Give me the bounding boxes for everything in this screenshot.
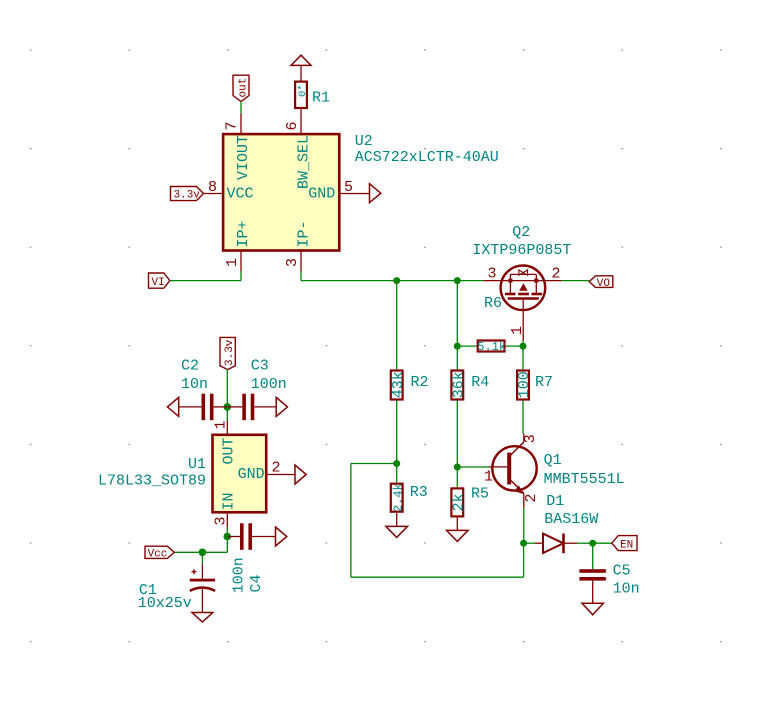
svg-text:IN: IN	[220, 492, 237, 510]
wire 3.3v to C2 C3 node	[226, 369, 228, 407]
wire R7 to Q1 collector	[522, 400, 524, 433]
wire R4 column	[456, 281, 458, 370]
wire to Vcc label	[174, 551, 202, 553]
capacitor C3	[227, 358, 287, 421]
svg-text:U1: U1	[188, 456, 206, 473]
power arrow above R1	[291, 55, 311, 80]
svg-text:D1: D1	[546, 493, 564, 510]
svg-text:0*: 0*	[297, 84, 309, 97]
svg-text:C5: C5	[613, 563, 631, 580]
global label out	[233, 75, 250, 101]
svg-text:C3: C3	[251, 358, 269, 375]
svg-text:10n: 10n	[613, 581, 640, 598]
global label VO	[589, 276, 613, 290]
svg-text:3: 3	[488, 266, 497, 283]
svg-text:2: 2	[552, 266, 561, 283]
node C2 C3	[224, 403, 232, 411]
svg-text:R4: R4	[471, 374, 489, 391]
hierarchical arrow at C4	[276, 527, 287, 546]
pin 1 IP+	[224, 220, 252, 271]
wire VI to pin1	[170, 271, 241, 281]
svg-text:BW_SEL: BW_SEL	[296, 135, 313, 189]
svg-text:1: 1	[224, 258, 241, 267]
svg-text:VCC: VCC	[227, 186, 254, 203]
svg-text:100n: 100n	[251, 376, 287, 393]
pin 3 wire of Q1	[523, 434, 525, 442]
resistor R7	[516, 371, 553, 400]
svg-text:10x25v: 10x25v	[138, 595, 192, 612]
resistor R6	[477, 295, 506, 354]
hierarchical arrow at U1 pin2	[295, 465, 306, 484]
svg-text:R7: R7	[535, 374, 553, 391]
svg-text:Q2: Q2	[512, 224, 530, 241]
svg-text:5.1k: 5.1k	[477, 340, 506, 354]
pin 5 GND	[308, 179, 369, 203]
svg-text:MMBT5551L: MMBT5551L	[544, 471, 625, 488]
capacitor C5	[579, 543, 639, 603]
pin 2 GND of U1	[238, 460, 295, 484]
op-amp U2 body	[223, 133, 499, 251]
svg-text:43k: 43k	[390, 371, 407, 398]
svg-text:OUT: OUT	[220, 437, 237, 464]
svg-text:Vcc: Vcc	[148, 548, 168, 560]
node R3 top	[393, 460, 400, 467]
wire pin3 to Q2	[301, 271, 483, 281]
node R4 top	[454, 277, 461, 284]
svg-text:R2: R2	[411, 374, 429, 391]
transistor Q1	[484, 434, 625, 502]
svg-text:Q1: Q1	[544, 452, 562, 469]
hierarchical arrow at C3	[276, 397, 287, 416]
resistor R2	[390, 371, 429, 400]
hierarchical arrow at C2	[167, 397, 178, 416]
ground C5	[582, 603, 603, 615]
global label 3.3v vertical	[220, 337, 236, 369]
svg-text:1: 1	[509, 326, 526, 335]
svg-text:R3: R3	[410, 484, 428, 501]
svg-text:VIOUT: VIOUT	[235, 135, 252, 180]
regulator U1 body	[98, 435, 266, 513]
pin 3 IP-	[284, 220, 313, 271]
svg-text:3: 3	[522, 434, 539, 443]
svg-text:IP-: IP-	[296, 220, 313, 247]
svg-text:6: 6	[284, 121, 301, 130]
capacitor C2	[179, 358, 227, 421]
svg-text:IP+: IP+	[235, 220, 252, 247]
node Q1 base	[454, 464, 461, 471]
diode D1	[524, 493, 599, 553]
svg-text:7: 7	[224, 121, 241, 130]
node C1 top	[199, 549, 207, 557]
svg-text:R5: R5	[471, 486, 489, 503]
svg-text:100: 100	[516, 371, 533, 398]
ground C1	[192, 613, 213, 623]
svg-text:5: 5	[344, 179, 353, 196]
svg-text:C2: C2	[181, 358, 199, 375]
svg-text:EN: EN	[620, 539, 633, 551]
global label VI	[149, 273, 170, 289]
svg-text:2: 2	[523, 493, 540, 502]
global label Vcc	[145, 546, 174, 560]
svg-text:3: 3	[284, 258, 301, 267]
node D1 anode	[520, 540, 527, 547]
svg-text:100n: 100n	[230, 557, 247, 593]
svg-text:2k: 2k	[451, 493, 468, 511]
pin 6 BW_SEL	[284, 109, 313, 189]
wire R2 to R3 node	[396, 400, 398, 463]
svg-text:GND: GND	[238, 466, 265, 483]
svg-text:8: 8	[208, 179, 217, 196]
svg-text:R1: R1	[312, 90, 330, 107]
capacitor C4	[227, 523, 275, 593]
svg-text:C4: C4	[248, 574, 265, 592]
svg-text:1: 1	[213, 420, 230, 429]
svg-text:U2: U2	[355, 133, 373, 150]
svg-text:L78L33_SOT89: L78L33_SOT89	[98, 473, 206, 490]
svg-text:VI: VI	[152, 277, 165, 289]
hierarchical arrow at pin 5	[370, 184, 381, 203]
resistor R3	[391, 464, 428, 527]
svg-text:R6: R6	[484, 295, 502, 312]
svg-text:VO: VO	[597, 278, 611, 290]
wire R4 to base node	[456, 400, 458, 467]
capacitor C1 polarized	[138, 552, 215, 612]
svg-text:BAS16W: BAS16W	[544, 511, 598, 528]
wire pin3 node to Vcc node	[202, 537, 227, 553]
svg-text:out: out	[238, 78, 250, 98]
wire Q2 to VO	[561, 280, 589, 282]
svg-text:2.4k: 2.4k	[391, 483, 405, 512]
wire to EN label	[593, 542, 612, 544]
resistor R1	[295, 82, 330, 108]
resistor R5	[451, 467, 490, 530]
svg-text:3: 3	[213, 516, 230, 525]
svg-text:3.3v: 3.3v	[174, 189, 201, 201]
pin 1 OUT of U1	[213, 407, 238, 465]
svg-text:3.3v: 3.3v	[224, 339, 236, 366]
svg-text:ACS722xLCTR-40AU: ACS722xLCTR-40AU	[355, 149, 499, 166]
svg-text:1: 1	[484, 468, 493, 485]
pin 1 of Q2 gate	[509, 310, 526, 341]
svg-text:10n: 10n	[181, 376, 208, 393]
svg-text:GND: GND	[308, 186, 335, 203]
transistor Q2	[472, 224, 571, 310]
pin 3 IN of U1	[213, 492, 238, 536]
wire out to pin7	[240, 102, 242, 114]
global label 3.3v left	[171, 187, 204, 202]
node U1 pin3	[224, 533, 232, 541]
wire R2 column	[396, 281, 398, 370]
node R2 top	[393, 277, 400, 284]
ground R5	[447, 530, 469, 541]
wire R6 right	[506, 345, 523, 347]
node R6 left	[454, 343, 461, 350]
wire gate to R6 node	[522, 341, 524, 369]
pin 8 VCC	[204, 179, 254, 203]
ground R3	[386, 526, 408, 537]
pin 7 VIOUT	[224, 114, 253, 181]
svg-text:2: 2	[272, 460, 281, 477]
wire Q1 base	[457, 466, 489, 468]
node C5 top	[589, 540, 596, 547]
wire D1 to EN node	[577, 542, 593, 544]
svg-text:IXTP96P085T: IXTP96P085T	[472, 242, 571, 259]
wire Q1 emitter down	[523, 493, 525, 543]
node R6 right	[520, 343, 527, 350]
feedback loop wire	[351, 464, 524, 578]
global label EN	[612, 536, 637, 552]
svg-text:36k: 36k	[451, 371, 468, 398]
wire R6 left	[457, 345, 476, 347]
resistor R4	[451, 371, 490, 400]
